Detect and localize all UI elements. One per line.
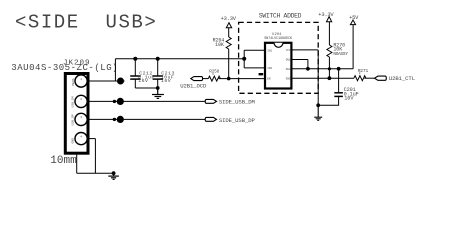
capacitor C201 xyxy=(318,69,343,106)
junction dot pin1 xyxy=(117,78,124,85)
svg-text:16V: 16V xyxy=(138,78,148,84)
junction dot small pin3 xyxy=(113,118,116,121)
wire R258 to IC xyxy=(219,78,265,80)
wire pin4 down xyxy=(94,139,96,174)
junction dot rail C212 xyxy=(133,57,137,61)
connector JK209 body xyxy=(65,74,88,154)
junction dot R264 node xyxy=(227,77,231,81)
capacitor C213 xyxy=(153,59,164,88)
svg-text:<SIDE USB>: <SIDE USB> xyxy=(15,12,157,34)
wire IC left pin row1 xyxy=(244,49,265,51)
net flag SIDE_USB_DP xyxy=(205,117,216,121)
junction dot R270 cross xyxy=(328,67,331,70)
svg-text:10K: 10K xyxy=(215,42,224,48)
svg-text:EN: EN xyxy=(267,78,271,81)
svg-text:+3.3V: +3.3V xyxy=(221,16,237,22)
junction dot cap ground xyxy=(156,86,160,90)
resistor R271 xyxy=(354,76,366,81)
wire shield horizontal xyxy=(77,172,114,174)
svg-text:SIDE_USB_DM: SIDE_USB_DM xyxy=(219,99,255,106)
capacitor C212 xyxy=(130,59,141,88)
connector pin 3 circle xyxy=(75,113,87,125)
wire IC left vertical xyxy=(243,50,245,68)
wire pin2 horizontal to DM flag xyxy=(88,100,205,102)
power symbol +3.3V left xyxy=(226,23,231,28)
svg-text:U2B1_CTL: U2B1_CTL xyxy=(389,75,415,82)
resistor R270 labels xyxy=(333,42,348,57)
wire IC right pin row2 xyxy=(291,59,308,61)
analog switch IC U204 body xyxy=(265,43,291,89)
svg-text:SN74LVC1G66DCK: SN74LVC1G66DCK xyxy=(264,37,293,41)
svg-text:+5V: +5V xyxy=(349,15,359,21)
wire pin1 horizontal xyxy=(88,80,125,82)
power symbol +3.3V right xyxy=(327,17,332,22)
capacitor C212 value labels xyxy=(138,70,155,84)
svg-text:1: 1 xyxy=(80,78,82,81)
junction dot row2/row3 xyxy=(306,67,310,71)
wire IC right pin row3 to +5V xyxy=(291,68,353,70)
wire R271 to flag xyxy=(364,77,374,79)
wire long vertical to ground xyxy=(317,50,319,105)
net flag U2B1_OCD xyxy=(191,77,203,81)
svg-text:NOASSY: NOASSY xyxy=(333,52,348,57)
svg-text:OU2: OU2 xyxy=(286,68,291,71)
resistor R271 labels xyxy=(358,68,369,75)
wire R270 upper stem xyxy=(328,22,330,45)
wire pin1 up to rail xyxy=(114,59,116,81)
svg-text:4: 4 xyxy=(80,135,82,138)
connector pin numbers xyxy=(80,78,82,139)
capacitor C201 labels xyxy=(344,87,359,102)
junction dot big pin3 xyxy=(117,116,124,123)
svg-text:2: 2 xyxy=(80,98,82,101)
connector pin 4 circle xyxy=(75,133,87,145)
svg-text:+3.3V: +3.3V xyxy=(318,12,334,18)
svg-text:GND: GND xyxy=(286,77,291,80)
svg-text:GND: GND xyxy=(71,138,75,144)
connector internal pin name labels (rotated) xyxy=(71,78,75,143)
IC inside pin labels xyxy=(267,49,291,81)
svg-text:IN1: IN1 xyxy=(267,49,272,52)
junction dot IC ground xyxy=(316,103,320,107)
net flag U2B1_CTL xyxy=(375,76,387,80)
wire connector shield stem xyxy=(76,155,78,174)
connector pin 2 circle xyxy=(75,95,87,107)
resistor R258 labels xyxy=(209,70,219,76)
wire pin4 horizontal xyxy=(88,138,95,140)
capacitor C213 value labels xyxy=(161,70,175,84)
IC notch xyxy=(274,43,283,48)
svg-text:16V: 16V xyxy=(344,95,354,101)
wire R270 lower stem xyxy=(328,57,330,78)
junction dot big pin2 xyxy=(117,98,124,105)
IC left NC blob xyxy=(259,73,264,75)
wire R264 vertical lower xyxy=(228,49,230,79)
junction dot shield ground xyxy=(112,171,116,175)
svg-text:VBUS: VBUS xyxy=(71,78,75,86)
junction dot C201 tap xyxy=(337,67,341,71)
wire flag to R258 xyxy=(203,78,209,80)
junction dot rail IC xyxy=(242,57,246,61)
svg-text:OU1: OU1 xyxy=(286,59,291,62)
resistor R270 xyxy=(327,45,332,57)
wire top rail xyxy=(115,58,244,60)
power symbol +5V xyxy=(350,20,355,25)
ground IC xyxy=(314,105,322,120)
wire IC left pin row2 xyxy=(244,67,265,69)
svg-text:IN2: IN2 xyxy=(267,67,272,70)
resistor R258 xyxy=(208,76,220,81)
svg-text:3: 3 xyxy=(80,116,82,119)
svg-text:16V: 16V xyxy=(161,78,171,84)
connector pin 1 circle xyxy=(75,75,87,87)
junction dot small pin2 xyxy=(113,100,116,103)
net flag SIDE_USB_DM xyxy=(205,99,216,103)
resistor R264 labels xyxy=(213,38,225,48)
svg-text:USB_DM: USB_DM xyxy=(71,96,75,107)
junction dot rail C213 xyxy=(156,57,160,61)
junction dot R270 node xyxy=(328,76,332,80)
ground connector xyxy=(108,173,119,179)
svg-text:VCC: VCC xyxy=(286,49,291,52)
wire +5V stem xyxy=(352,25,354,69)
wire capacitor bottoms xyxy=(135,87,157,89)
svg-text:SWITCH ADDED: SWITCH ADDED xyxy=(259,12,302,19)
wire row2 drop xyxy=(307,60,309,69)
svg-text:U2B1_OCD: U2B1_OCD xyxy=(180,82,207,89)
dashed box SWITCH ADDED xyxy=(239,22,319,93)
svg-text:USB_DP: USB_DP xyxy=(71,114,75,125)
svg-text:R258: R258 xyxy=(209,70,219,75)
svg-text:SIDE_USB_DP: SIDE_USB_DP xyxy=(219,117,256,124)
svg-text:3AU04S-305-ZC-(LG): 3AU04S-305-ZC-(LG) xyxy=(11,63,118,73)
resistor R264 xyxy=(226,37,231,49)
ground under capacitors xyxy=(152,88,164,98)
wire IC right pin row1 xyxy=(291,49,318,51)
wire R264 to power xyxy=(228,28,230,37)
svg-text:10mm: 10mm xyxy=(50,155,77,167)
wire IC right pin row4 / CTL row xyxy=(291,77,354,79)
wire pin3 horizontal to DP flag xyxy=(88,118,205,120)
